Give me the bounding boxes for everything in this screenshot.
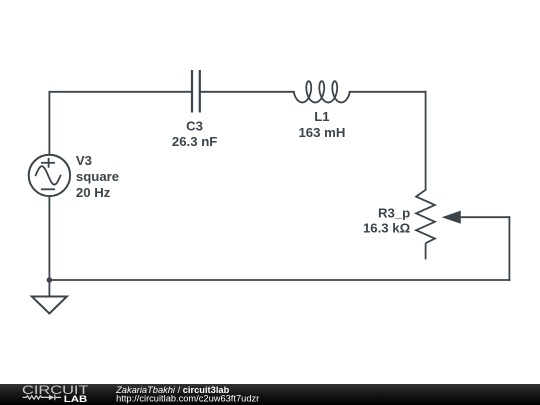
capacitor C3 label: [172, 119, 217, 149]
footer logo schematic squiggle wire: [23, 395, 61, 401]
ground stub wire: [48, 280, 50, 297]
voltage source V3 circle: [29, 155, 70, 196]
svg-text:LAB: LAB: [64, 394, 87, 404]
voltage source V3 plus sign: [41, 158, 55, 168]
wire left rail upper (top wire down to V3 plus terminal): [48, 92, 50, 155]
svg-text:V3: V3: [76, 153, 92, 168]
svg-text:http://circuitlab.com/c2uw63ft: http://circuitlab.com/c2uw63ft7udzr: [116, 394, 259, 404]
wire wiper vertical drop (R3_p wiper to bottom wire): [508, 217, 510, 280]
ground symbol triangle: [32, 297, 67, 314]
voltage source V3 minus sign: [41, 188, 55, 190]
voltage source V3 sine waveform: [36, 166, 61, 184]
inductor L1 label: [298, 109, 345, 140]
svg-text:20 Hz: 20 Hz: [76, 185, 111, 200]
inductor L1: [294, 81, 350, 102]
wire top-right horizontal (L1 to right rail): [350, 91, 426, 93]
voltage source V3 label: [76, 153, 119, 200]
wire right rail (top wire down to R3_p top lead): [425, 92, 427, 190]
wire wiper horizontal (arrow back to right drop): [460, 216, 510, 218]
svg-text:square: square: [76, 169, 119, 184]
wire bottom horizontal (ground node to wiper drop): [49, 279, 509, 281]
wire top-left horizontal (V3 top to C3 left plate): [49, 91, 191, 93]
potentiometer R3_p zigzag body: [416, 190, 435, 243]
potentiometer R3_p label: [363, 205, 411, 235]
wire top middle horizontal (C3 right plate to L1): [201, 91, 294, 93]
svg-text:26.3 nF: 26.3 nF: [172, 134, 217, 149]
svg-text:16.3 kΩ: 16.3 kΩ: [363, 220, 411, 235]
footer bar background: [0, 384, 540, 405]
footer logo diode triangle: [49, 395, 55, 400]
wire left rail lower (V3 minus terminal down to ground node): [48, 196, 50, 280]
svg-text:L1: L1: [314, 109, 329, 124]
potentiometer R3_p bottom stub lead: [425, 243, 427, 259]
potentiometer R3_p wiper arrow: [442, 211, 461, 224]
svg-text:C3: C3: [186, 119, 203, 134]
capacitor C3: [192, 70, 200, 113]
ground node junction dot: [47, 277, 53, 283]
svg-text:R3_p: R3_p: [378, 205, 410, 220]
svg-text:163 mH: 163 mH: [298, 125, 345, 140]
